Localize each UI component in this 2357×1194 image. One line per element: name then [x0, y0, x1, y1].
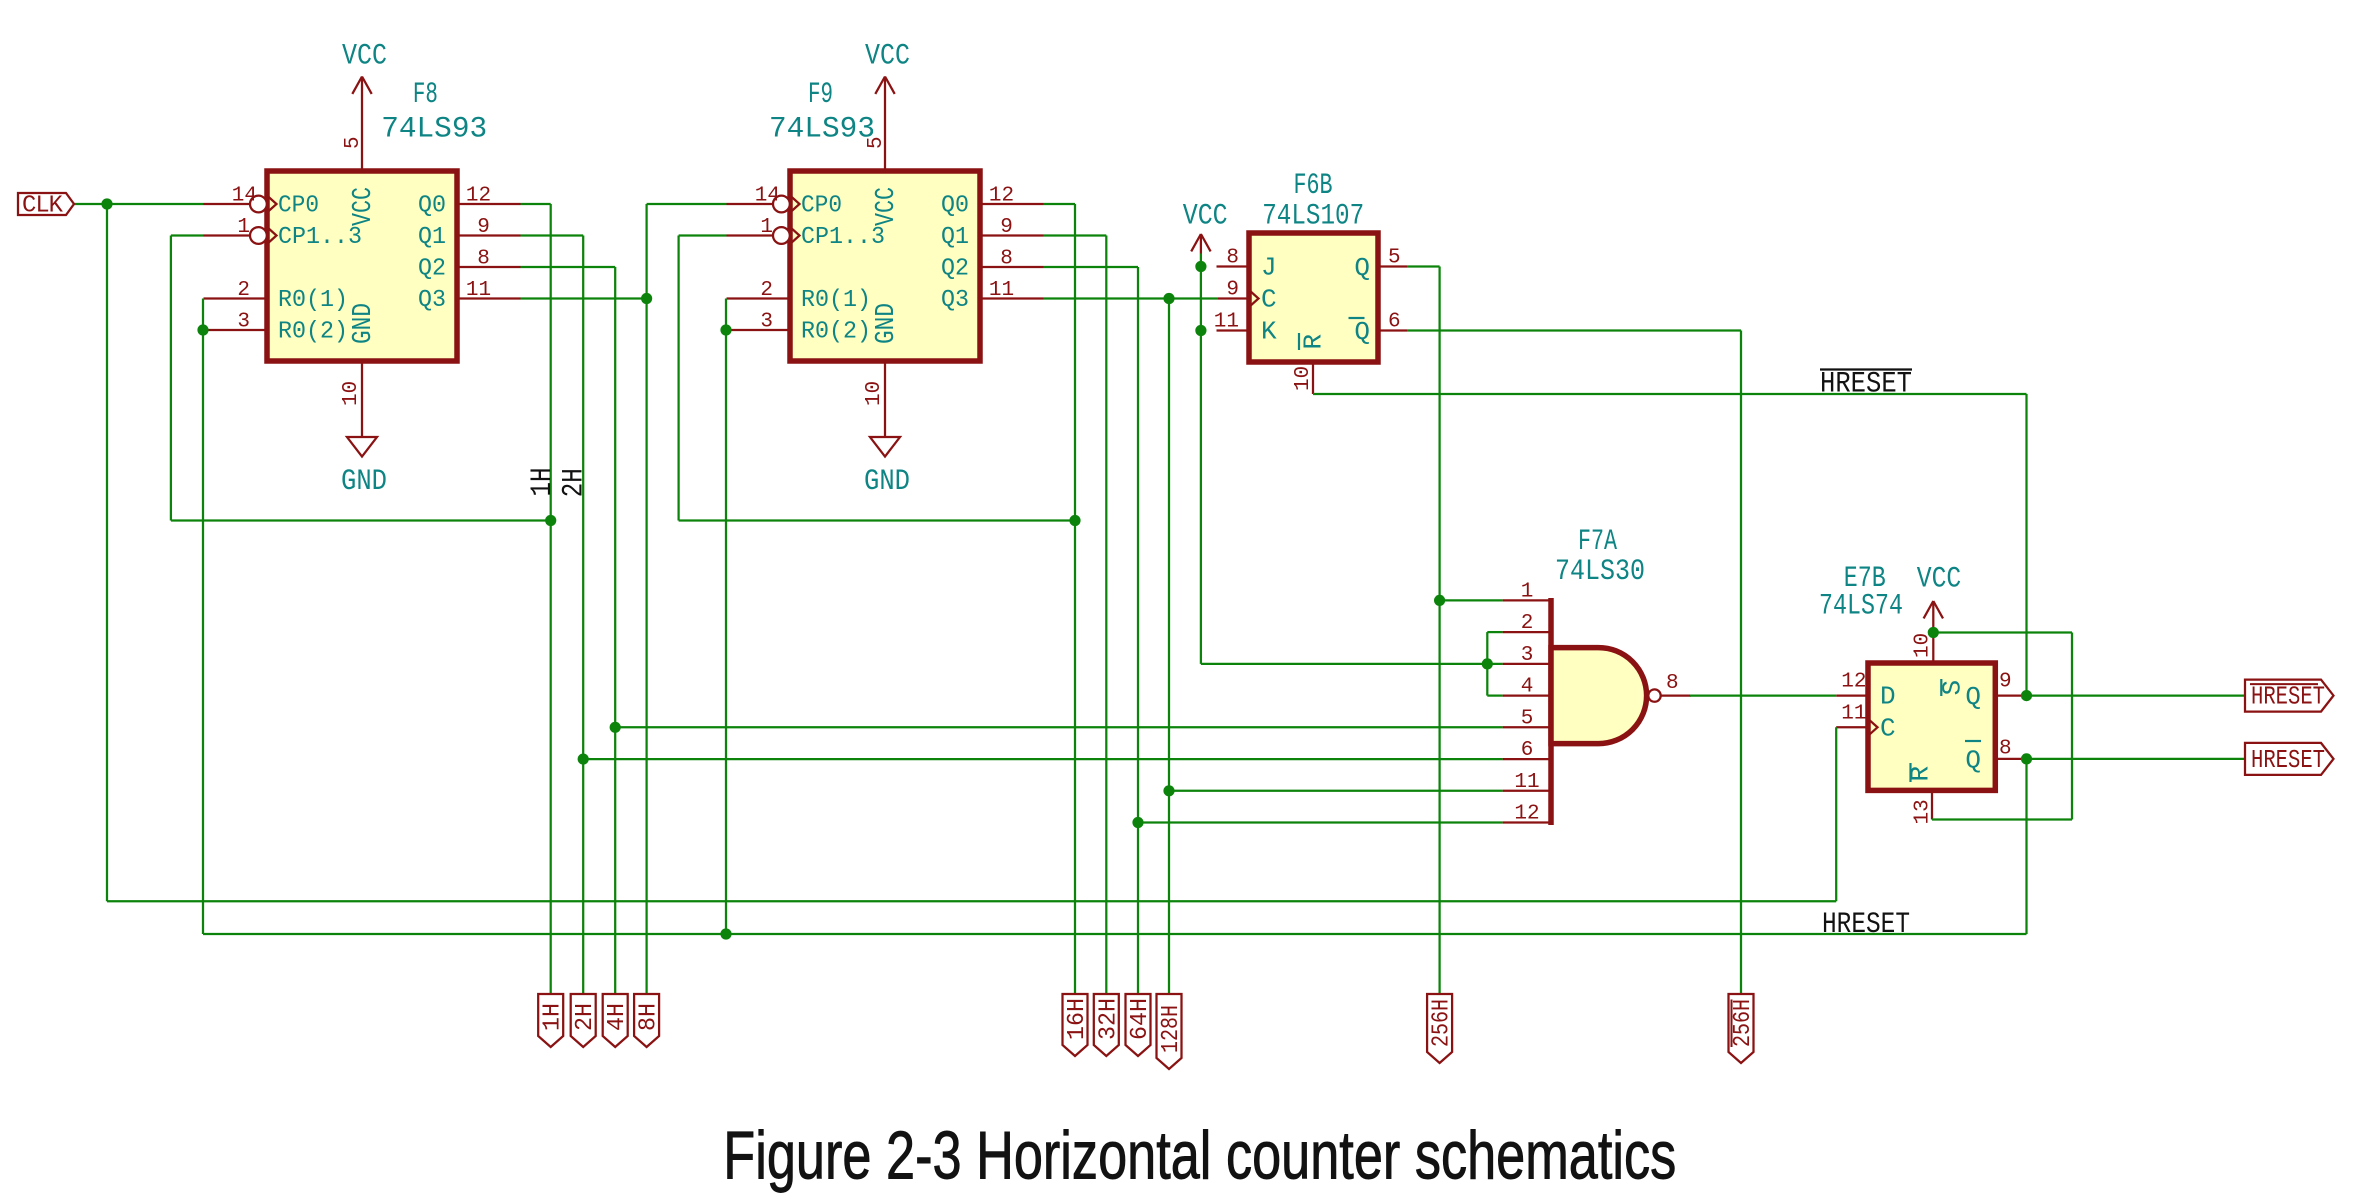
svg-text:CP0: CP0	[801, 193, 842, 220]
svg-text:F9: F9	[808, 78, 833, 112]
svg-text:128H: 128H	[1158, 1005, 1185, 1053]
svg-text:10: 10	[863, 381, 886, 406]
svg-text:K: K	[1261, 317, 1277, 347]
svg-text:R0(1): R0(1)	[801, 287, 871, 314]
svg-text:Q3: Q3	[941, 287, 969, 314]
svg-text:R0(2): R0(2)	[278, 319, 348, 346]
svg-text:2: 2	[760, 279, 773, 302]
svg-text:F7A: F7A	[1578, 525, 1617, 559]
svg-text:8: 8	[477, 248, 490, 271]
svg-text:1H: 1H	[526, 468, 560, 497]
svg-text:GND: GND	[349, 303, 379, 344]
svg-text:8H: 8H	[636, 1003, 663, 1031]
svg-text:VCC: VCC	[342, 40, 387, 74]
svg-text:10: 10	[1292, 366, 1315, 391]
svg-text:2H: 2H	[558, 468, 592, 497]
svg-text:1: 1	[1521, 580, 1534, 603]
svg-text:3: 3	[1521, 644, 1534, 667]
svg-text:9: 9	[1999, 671, 2012, 694]
svg-text:GND: GND	[341, 465, 387, 499]
svg-text:Q: Q	[1965, 682, 1981, 712]
svg-text:11: 11	[989, 279, 1014, 302]
svg-text:Q2: Q2	[941, 256, 969, 283]
svg-text:5: 5	[342, 136, 365, 149]
svg-text:6: 6	[1388, 311, 1401, 334]
svg-text:VCC: VCC	[1183, 200, 1228, 234]
svg-text:12: 12	[989, 185, 1014, 208]
svg-text:8: 8	[1999, 737, 2012, 760]
svg-text:Q: Q	[1354, 317, 1370, 347]
svg-text:14: 14	[755, 185, 780, 208]
svg-text:HRESET: HRESET	[1820, 368, 1912, 402]
svg-text:256H: 256H	[1429, 999, 1456, 1047]
svg-text:8: 8	[1666, 672, 1679, 695]
svg-text:4H: 4H	[604, 1003, 631, 1031]
svg-text:R0(1): R0(1)	[278, 287, 348, 314]
svg-text:HRESET: HRESET	[2251, 682, 2325, 712]
svg-text:Q0: Q0	[418, 193, 446, 220]
svg-text:1: 1	[237, 216, 250, 239]
svg-text:C: C	[1261, 285, 1277, 315]
svg-text:9: 9	[1226, 279, 1239, 302]
svg-text:32H: 32H	[1095, 998, 1122, 1040]
svg-text:Q1: Q1	[418, 224, 446, 251]
svg-text:74LS107: 74LS107	[1262, 200, 1364, 234]
svg-text:D: D	[1880, 682, 1896, 712]
svg-text:1: 1	[760, 216, 773, 239]
svg-text:3: 3	[237, 311, 250, 334]
svg-text:4: 4	[1521, 676, 1534, 699]
svg-text:Q2: Q2	[418, 256, 446, 283]
svg-text:CP1..3: CP1..3	[278, 224, 362, 251]
svg-text:9: 9	[477, 216, 490, 239]
svg-text:8: 8	[1000, 248, 1013, 271]
svg-text:12: 12	[466, 185, 491, 208]
svg-text:Q0: Q0	[941, 193, 969, 220]
svg-text:74LS93: 74LS93	[381, 113, 487, 147]
svg-text:GND: GND	[872, 303, 902, 344]
svg-text:64H: 64H	[1127, 998, 1154, 1040]
svg-text:14: 14	[232, 185, 257, 208]
svg-text:5: 5	[1388, 247, 1401, 270]
svg-text:13: 13	[1911, 799, 1934, 824]
svg-text:VCC: VCC	[872, 187, 902, 226]
svg-text:Q: Q	[1354, 253, 1370, 283]
svg-text:J: J	[1261, 253, 1277, 283]
svg-text:1H: 1H	[540, 1003, 567, 1031]
svg-text:12: 12	[1841, 671, 1866, 694]
svg-text:VCC: VCC	[865, 40, 910, 74]
svg-text:74LS74: 74LS74	[1819, 590, 1903, 624]
svg-text:Figure 2-3 Horizontal counter: Figure 2-3 Horizontal counter schematics	[723, 1118, 1676, 1194]
svg-text:CP0: CP0	[278, 193, 319, 220]
svg-text:11: 11	[1841, 702, 1866, 725]
svg-text:10: 10	[340, 381, 363, 406]
svg-text:2: 2	[1521, 612, 1534, 635]
svg-text:R: R	[1299, 334, 1329, 350]
svg-text:HRESET: HRESET	[1822, 908, 1910, 942]
svg-text:Q3: Q3	[418, 287, 446, 314]
svg-text:C: C	[1880, 713, 1896, 743]
svg-text:HRESET: HRESET	[2251, 745, 2325, 775]
svg-text:5: 5	[1521, 707, 1534, 730]
svg-text:Q1: Q1	[941, 224, 969, 251]
svg-text:8: 8	[1226, 247, 1239, 270]
svg-text:74LS30: 74LS30	[1555, 555, 1645, 589]
svg-text:3: 3	[760, 311, 773, 334]
svg-text:256H: 256H	[1730, 999, 1757, 1047]
svg-text:12: 12	[1514, 803, 1539, 826]
svg-text:CP1..3: CP1..3	[801, 224, 885, 251]
svg-text:74LS93: 74LS93	[769, 113, 875, 147]
svg-text:GND: GND	[864, 465, 910, 499]
svg-text:VCC: VCC	[1917, 563, 1962, 597]
svg-text:9: 9	[1000, 216, 1013, 239]
svg-text:2: 2	[237, 279, 250, 302]
svg-text:11: 11	[1514, 771, 1539, 794]
svg-text:CLK: CLK	[22, 193, 64, 220]
svg-text:Q: Q	[1965, 745, 1981, 775]
svg-text:F8: F8	[413, 78, 438, 112]
svg-text:R0(2): R0(2)	[801, 319, 871, 346]
svg-text:VCC: VCC	[349, 187, 379, 226]
svg-text:6: 6	[1521, 739, 1534, 762]
svg-text:11: 11	[1214, 311, 1239, 334]
svg-text:2H: 2H	[572, 1003, 599, 1031]
svg-text:F6B: F6B	[1294, 169, 1333, 203]
svg-text:16H: 16H	[1064, 998, 1091, 1040]
svg-text:11: 11	[466, 279, 491, 302]
